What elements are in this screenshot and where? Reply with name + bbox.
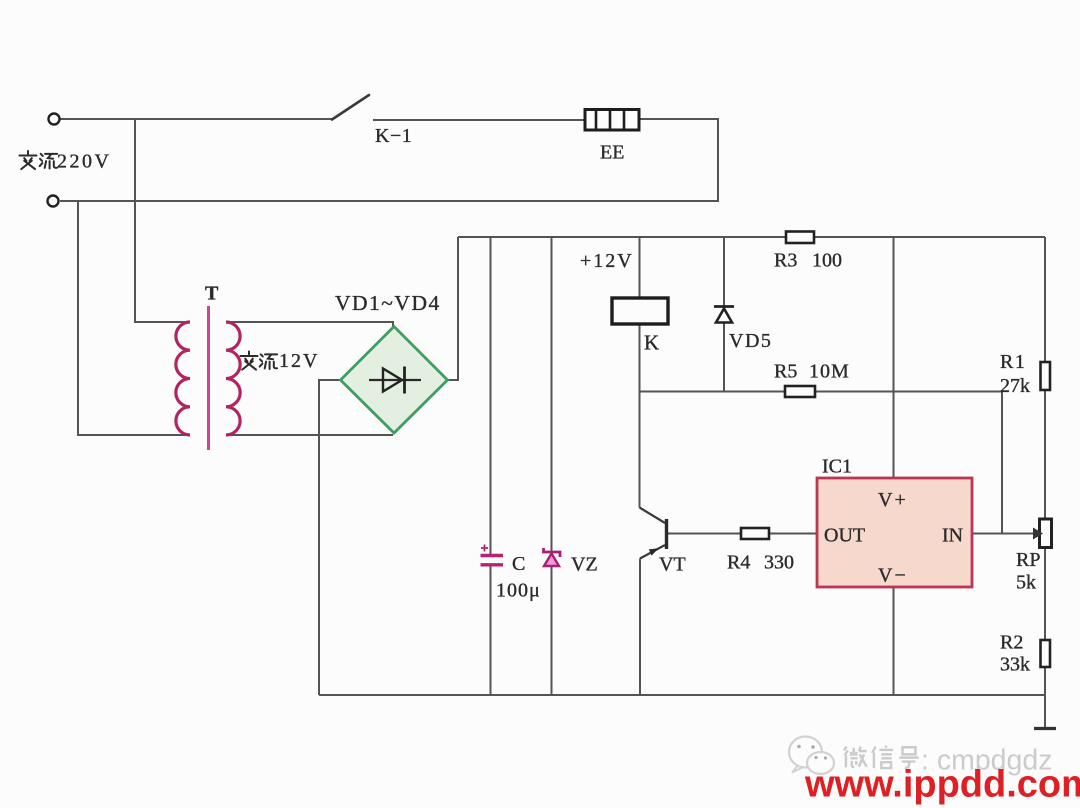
svg-text:OUT: OUT xyxy=(824,525,865,547)
svg-text:V+: V+ xyxy=(878,489,908,511)
svg-text:100μ: 100μ xyxy=(496,580,541,602)
svg-text:33k: 33k xyxy=(1000,654,1030,676)
svg-text:C: C xyxy=(512,553,525,575)
svg-text:27k: 27k xyxy=(1000,375,1030,397)
svg-text:IN: IN xyxy=(942,525,963,547)
svg-text:R5: R5 xyxy=(774,361,797,383)
svg-text:VT: VT xyxy=(659,554,686,576)
svg-text:10M: 10M xyxy=(809,361,850,383)
svg-text:K−1: K−1 xyxy=(375,125,412,147)
svg-text:www.ippdd.com: www.ippdd.com xyxy=(804,764,1080,806)
svg-text:R4: R4 xyxy=(727,552,750,574)
svg-text:220V: 220V xyxy=(57,151,111,173)
svg-text:K: K xyxy=(644,331,659,355)
svg-text:T: T xyxy=(205,283,219,305)
svg-text:VD1~VD4: VD1~VD4 xyxy=(335,291,441,315)
svg-text:IC1: IC1 xyxy=(822,456,852,478)
svg-text:100: 100 xyxy=(812,250,842,272)
svg-text:330: 330 xyxy=(764,552,794,574)
svg-text:V−: V− xyxy=(878,565,908,587)
svg-text:5k: 5k xyxy=(1016,572,1036,594)
svg-text:EE: EE xyxy=(600,142,624,164)
svg-text:RP: RP xyxy=(1016,549,1040,571)
svg-text:VZ: VZ xyxy=(571,554,598,576)
svg-text:+12V: +12V xyxy=(580,250,634,272)
svg-text:12V: 12V xyxy=(279,350,319,372)
svg-text:R2: R2 xyxy=(1000,632,1023,654)
svg-text:R1: R1 xyxy=(1000,351,1026,373)
svg-text:R3: R3 xyxy=(774,250,797,272)
svg-text:VD5: VD5 xyxy=(729,330,772,352)
